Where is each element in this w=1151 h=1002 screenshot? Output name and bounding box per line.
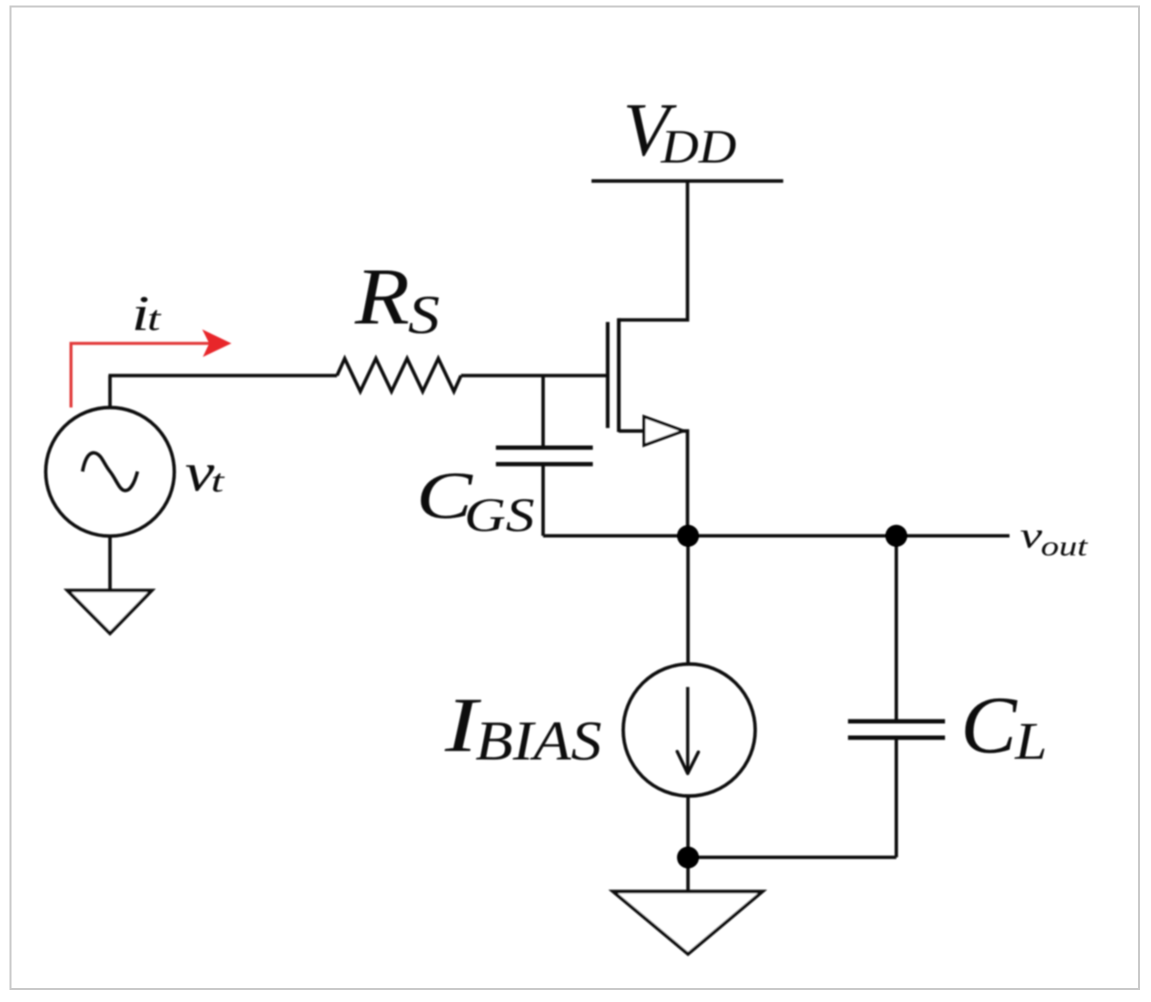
transistor M1 channel bar xyxy=(617,318,621,432)
node A: output node junction dot xyxy=(677,525,699,547)
current arrow it (red) xyxy=(71,343,212,407)
ground 2 (under IBIAS) xyxy=(613,892,763,955)
label VDD subscript DD xyxy=(660,131,735,163)
wire: drain drop from VDD xyxy=(619,181,688,320)
label CGS main C xyxy=(421,473,473,518)
label RS subscript S xyxy=(409,297,439,334)
label vt subscript t xyxy=(213,473,225,491)
capacitor CL top plate xyxy=(848,719,945,723)
wire: source lead of M1 xyxy=(619,431,688,536)
wire: resistor to gate xyxy=(461,374,608,377)
label vout subscript out xyxy=(1042,540,1088,556)
wire: vt to resistor xyxy=(109,374,338,377)
label RS main R xyxy=(355,270,409,323)
label CL subscript L xyxy=(1014,724,1044,759)
capacitor CGS bottom plate xyxy=(496,462,593,466)
capacitor CL bottom plate xyxy=(848,736,945,740)
node C: ground node junction dot xyxy=(677,847,699,869)
capacitor CGS bottom lead xyxy=(541,464,544,536)
label it subscript t xyxy=(149,310,161,330)
transistor M1 gate bar xyxy=(606,322,610,428)
sine symbol inside vt xyxy=(83,453,138,491)
wire: vt top lead xyxy=(108,376,111,408)
label IBIAS subscript BIAS xyxy=(476,722,601,760)
VDD rail xyxy=(592,179,784,182)
label CGS subscript GS xyxy=(467,499,533,531)
bottom wire (ground node to CL) xyxy=(688,856,896,859)
label it main i xyxy=(135,297,147,330)
label IBIAS main I xyxy=(445,700,482,751)
label vt main v xyxy=(186,465,214,491)
capacitor CGS top lead xyxy=(541,376,544,448)
output node wire xyxy=(543,534,1009,537)
capacitor CL bottom lead xyxy=(895,738,898,858)
resistor RS zigzag xyxy=(337,359,461,392)
node B: vout branch junction dot xyxy=(885,525,907,547)
voltage source vt circle xyxy=(46,408,175,537)
label CL main C xyxy=(965,698,1017,753)
IBIAS arrow shaft xyxy=(686,687,689,771)
transistor M1 source arrow xyxy=(644,417,683,446)
wire: vt bottom lead xyxy=(108,536,111,589)
wire: node to IBIAS xyxy=(686,536,689,666)
ground 1 (under vt) xyxy=(68,590,152,633)
capacitor CL top lead xyxy=(895,536,898,722)
label VDD main V xyxy=(627,105,677,156)
wire: IBIAS to ground node xyxy=(686,795,689,890)
IBIAS arrowhead xyxy=(677,752,698,774)
label vout main v xyxy=(1021,531,1042,548)
current source IBIAS circle xyxy=(623,664,755,796)
capacitor CGS top plate xyxy=(496,445,593,449)
